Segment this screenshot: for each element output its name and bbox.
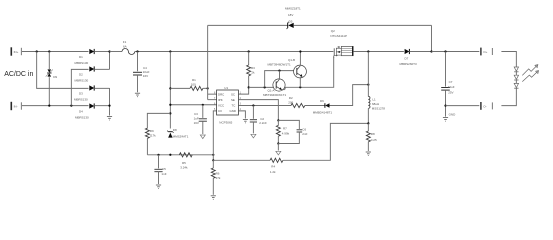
node at 158.5,154.8 [157,154,159,156]
node at 368.3,123 [367,122,369,124]
svg-text:R8: R8 [371,132,375,136]
node at 213.3,160.3 [212,159,214,161]
terminal O+ [481,48,492,56]
wire rail from mosfet [353,51,404,53]
inductor L1 MSS1278 [368,96,385,123]
svg-text:D3: D3 [79,92,83,96]
resistor R7 4.99k [276,120,289,143]
svg-text:10uF: 10uF [448,85,455,89]
wire output rail [432,51,480,53]
svg-text:C3: C3 [194,112,198,116]
svg-text:16V: 16V [143,74,148,78]
node at 300.3,87.3 [299,86,301,88]
zener D5 MMSZ18T1 [285,7,301,29]
wire bridge plus join [109,52,111,70]
node at 207.7,88 [207,87,209,89]
svg-text:GND: GND [230,109,236,113]
LED DS1 [514,67,518,72]
zener D8 MMSZ4AT1 [167,128,189,138]
wire top rail drop [431,25,433,51]
node at 278,120 [277,119,279,121]
resistor R4 1.2k [270,158,283,174]
svg-text:R4: R4 [271,165,275,169]
resistor R3 2k [247,52,256,88]
node at 137.5,51.5 [136,50,138,52]
svg-text:D6: D6 [320,99,324,103]
node at 300.4,51.5 [299,50,301,52]
svg-text:16V: 16V [194,121,199,125]
ground R6 [211,196,216,200]
svg-text:MBRS130: MBRS130 [75,79,89,83]
resistor R5 3.24k [179,153,192,170]
capacitor C5 [154,155,166,184]
svg-text:TC: TC [232,103,236,107]
wire IN- to bridge [22,105,89,107]
svg-text:SE: SE [231,98,235,102]
wire GND pin [238,111,245,119]
svg-text:SC: SC [231,93,235,97]
resistor R8 0.25 [366,123,377,151]
node at 248.6,87 [248,86,250,88]
svg-text:MBRS260T3: MBRS260T3 [400,62,418,66]
wire feedback bus [213,159,270,161]
node at 368.3,51.5 [367,50,369,52]
wire VCC branch vertical [169,52,171,129]
wire IN+ branch down to D3 row [37,52,89,89]
fuse F1 [122,40,135,54]
resistor R9 117k [145,128,156,155]
node at 265,87 [264,86,266,88]
svg-text:Q2: Q2 [331,29,335,33]
wire VCC long feed [170,104,216,106]
node at 253.4,105.5 [252,104,254,106]
node at 368.3,84.6 [367,84,369,86]
diode D3 MBRS130 [74,85,110,101]
capacitor C6 2nF loop [278,120,307,143]
diode D7 MBRS260T3 [400,49,432,66]
node at 36.7,51.5 [36,50,38,52]
wire bridge minus join [109,88,111,116]
svg-text:O-: O- [483,104,486,108]
LED DS2 [514,72,518,80]
wire gate net [305,105,325,107]
svg-text:D4: D4 [79,110,83,114]
wire DRC pin stubs [208,93,217,95]
node at 279.5,70.6 [278,70,280,72]
wire base feed Q1-A [249,86,274,88]
capacitor C4 [133,52,150,93]
svg-text:4.99k: 4.99k [282,131,290,135]
resistor R6 27k [211,160,221,195]
svg-text:D2: D2 [79,73,83,77]
svg-text:U1: U1 [224,86,228,90]
wire IN+ to bridge [22,51,89,53]
ground C2 [251,134,256,138]
svg-text:117k: 117k [149,133,156,137]
svg-text:MBT3946DW1T1: MBT3946DW1T1 [263,93,287,97]
svg-text:3.24k: 3.24k [180,165,188,169]
LED DS3 [514,80,518,88]
wire sense bus left [147,154,213,156]
node at 445.5,105.9 [444,105,446,107]
LED light arrows [522,65,538,82]
ground R7 [276,151,281,155]
wire IN- branch up to D2 row [71,69,88,105]
svg-text:D5: D5 [289,19,293,23]
svg-text:2nF: 2nF [302,132,307,136]
svg-text:27k: 27k [216,176,221,180]
wire LED string top [501,52,516,67]
wire riser to Q1-B base [265,71,294,88]
svg-text:IN+: IN+ [14,50,19,54]
wire R9 top link [147,113,170,128]
wire TC pin bus [238,105,291,107]
svg-text:1nF: 1nF [161,172,166,176]
node at 170,113.4 [169,112,171,114]
node at 49.3,106 [48,105,50,107]
capacitor C2 [250,106,267,134]
svg-text:O+: O+ [483,50,487,54]
diode D4 MBRS130 [75,103,110,119]
node at 431.5,51.5 [430,50,432,52]
svg-text:MBRS130: MBRS130 [75,116,89,120]
wire CII drop [213,111,216,160]
resistor R2 200 [288,96,305,108]
svg-text:1.2k: 1.2k [270,170,276,174]
wire comp stub to ground [277,144,279,151]
svg-text:MBT3946DW1T1: MBT3946DW1T1 [268,63,292,67]
svg-text:R7: R7 [283,126,287,130]
svg-text:MMBD4148T1: MMBD4148T1 [313,110,333,114]
ground bridge return [107,117,112,121]
wire gate net riser [330,85,369,106]
wire DRC riser to top rail [207,25,209,99]
wire Q1-A emitter run [285,57,334,89]
svg-text:NTGS4111P: NTGS4111P [330,34,347,38]
mosfet Q2 NTGS4111P [330,29,353,58]
diode D2 MBRS130 [75,66,110,82]
svg-text:CII: CII [218,109,222,113]
node at 202.8,104.8 [202,104,204,106]
svg-text:2.2nF: 2.2nF [259,121,267,125]
svg-text:C7: C7 [449,80,453,84]
svg-text:C6: C6 [302,127,306,131]
svg-text:0.25: 0.25 [371,138,377,142]
wire SWE pin to comp branch [238,100,278,121]
wire SWC pin to driver node [238,87,248,94]
svg-text:VCC: VCC [218,103,224,107]
ground U1 [243,119,248,123]
svg-text:68uH: 68uH [372,102,379,106]
node at 109.5,51.5 [108,50,110,52]
node at 213.3,154.8 [212,154,214,156]
wire feedback bus right [283,123,368,160]
svg-text:25V: 25V [448,91,453,95]
node at 170,88 [169,87,171,89]
terminal IN+ [11,47,21,55]
node at 109.5,106 [108,105,110,107]
svg-text:R9: R9 [150,129,154,133]
wire LED string bottom [501,88,516,105]
svg-text:IPK: IPK [218,98,223,102]
node at 49.3,51.5 [48,50,50,52]
svg-text:L1: L1 [372,98,376,102]
ground output GND [443,112,456,121]
svg-text:D9: D9 [53,75,57,79]
svg-text:GND: GND [449,112,457,116]
wire O- return [446,105,480,107]
svg-text:100: 100 [191,82,196,86]
ground C3 [200,135,205,139]
node at 170,51.5 [169,50,171,52]
transistor Q1-B MBT3946DW1T1 [268,52,307,88]
svg-text:C5: C5 [162,167,166,171]
svg-text:18V: 18V [288,13,293,17]
node at 445.5,51.5 [444,50,446,52]
svg-text:Q1-B: Q1-B [288,58,295,62]
svg-text:D1: D1 [79,55,83,59]
node at 170,154.8 [169,154,171,156]
svg-text:AC/DC in: AC/DC in [4,71,33,78]
svg-text:D8: D8 [173,128,177,132]
svg-text:MBRS130: MBRS130 [74,98,88,102]
capacitor C3 [194,105,207,134]
terminal O- [481,102,492,110]
svg-text:DRC: DRC [218,93,224,97]
svg-text:MSS1278: MSS1278 [372,106,386,110]
wire inductor branch [367,52,369,97]
svg-text:MMSZ4AT1: MMSZ4AT1 [173,135,189,139]
diode D1 MBRS130 [75,49,110,65]
svg-text:R3: R3 [251,66,255,70]
svg-text:200: 200 [288,100,293,104]
svg-text:2k: 2k [251,71,255,75]
wire main rail [135,51,334,53]
ground R8 [366,152,371,156]
TVS diode D9 [46,52,58,106]
node at 170,104.8 [169,104,171,106]
wire top rail right [294,24,432,26]
svg-text:IN-: IN- [14,104,18,108]
diode D6 MMBD4148T1 [313,99,333,115]
svg-text:Q1-A: Q1-A [268,88,275,92]
svg-text:R6: R6 [216,171,220,175]
svg-text:MMSZ18T1: MMSZ18T1 [285,7,301,11]
capacitor C7 [441,52,455,117]
node at 248.6,51.5 [248,50,250,52]
svg-text:MBRS130: MBRS130 [75,61,89,65]
terminal IN- [11,102,21,110]
resistor R1 100 [170,78,207,90]
wire top rail [208,24,288,26]
svg-text:NCP3065: NCP3065 [219,120,232,124]
ground C4 [135,93,140,97]
transistor Q1-A MBT3946DW1T1 [263,71,287,98]
ground C5 [156,185,161,189]
wire rail to fuse [110,51,123,53]
node at 278,143.5 [277,142,279,144]
IC U1 NCP3065 [214,86,242,124]
node at 71,106 [70,105,72,107]
svg-text:1uF: 1uF [194,116,199,120]
svg-text:6A: 6A [123,44,127,48]
svg-text:D7: D7 [405,56,409,60]
